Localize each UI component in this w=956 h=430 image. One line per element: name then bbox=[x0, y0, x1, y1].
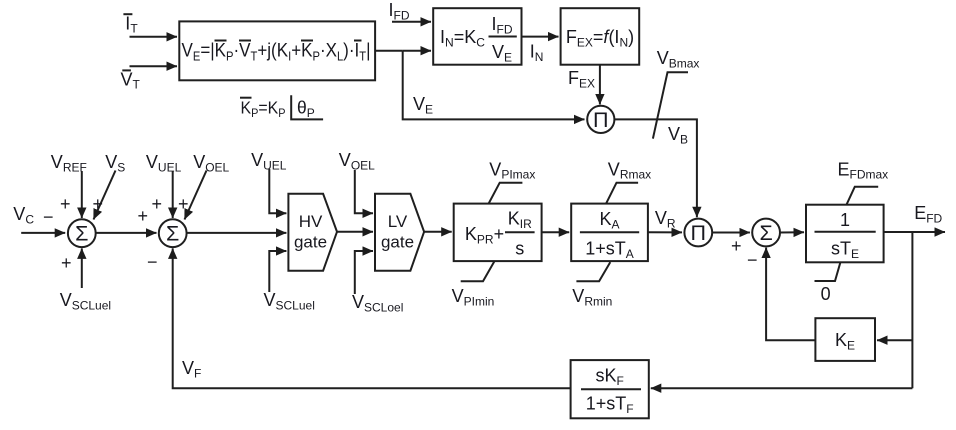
gate HV bbox=[288, 194, 337, 271]
svg-text:KP=KP: KP=KP bbox=[241, 98, 286, 120]
svg-text:−: − bbox=[747, 250, 758, 270]
node VT input label bbox=[121, 69, 141, 91]
svg-text:IFD: IFD bbox=[389, 0, 410, 23]
wire PI block to KA block bbox=[542, 231, 570, 233]
block integrator 1/sTE bbox=[806, 205, 884, 263]
multiplier P1 bbox=[587, 106, 614, 133]
svg-text:s: s bbox=[515, 239, 524, 259]
svg-text:VC: VC bbox=[13, 204, 34, 227]
wire junction down and right to multiplier P1 bbox=[403, 51, 585, 120]
wire KE output up into S3 bbox=[766, 248, 815, 341]
limiter mark VRmax bbox=[606, 160, 651, 204]
gate LV bbox=[375, 194, 424, 271]
svg-text:+: + bbox=[60, 194, 71, 214]
svg-text:EFDmax: EFDmax bbox=[838, 160, 889, 182]
svg-text:−: − bbox=[147, 252, 158, 272]
wire VC into summer S1 bbox=[21, 232, 65, 234]
block IN = KC IFD / VE bbox=[433, 8, 521, 64]
limiter mark VRmin bbox=[572, 262, 612, 308]
svg-text:VF: VF bbox=[182, 358, 201, 381]
wire feedback into sKF block bbox=[651, 387, 913, 389]
summer S3 bbox=[752, 219, 780, 247]
limiter mark VPImin bbox=[452, 261, 495, 308]
wire VSCLoel into LV gate bottom input bbox=[355, 251, 373, 294]
block PI KPR + KIR/s bbox=[454, 204, 542, 262]
wire P1 output right then down to multiplier P2 bbox=[614, 119, 697, 217]
svg-text:IT: IT bbox=[125, 14, 138, 36]
svg-text:EFD: EFD bbox=[914, 203, 942, 226]
overbar V bbox=[239, 40, 251, 42]
svg-text:gate: gate bbox=[381, 233, 414, 252]
svg-text:+: + bbox=[178, 194, 189, 214]
wire P2 to S3 bbox=[712, 232, 750, 234]
limiter mark VPImax bbox=[489, 160, 536, 204]
svg-text:0: 0 bbox=[821, 284, 831, 304]
wire FEX block down to multiplier P1 bbox=[599, 65, 601, 105]
block KE bbox=[815, 318, 875, 361]
svg-text:gate: gate bbox=[294, 233, 327, 252]
overbar K (2nd) bbox=[301, 40, 313, 42]
overbar I bbox=[354, 40, 362, 42]
wire LV gate to PI block bbox=[424, 231, 452, 233]
wire VS diagonal into S1 bbox=[94, 171, 116, 220]
svg-text:+: + bbox=[731, 236, 742, 256]
svg-text:HV: HV bbox=[299, 212, 323, 231]
wire IFD arrow into IN block bbox=[392, 21, 431, 23]
block sKF/(1+sTF) bbox=[571, 360, 649, 418]
wire KA block to multiplier P2 bbox=[648, 231, 682, 233]
block VE equation bbox=[179, 21, 375, 80]
svg-text:Σ: Σ bbox=[166, 222, 179, 246]
svg-text:+: + bbox=[138, 206, 149, 226]
svg-text:IN: IN bbox=[530, 42, 544, 65]
wire VSCLuel up into S1 bbox=[81, 248, 83, 288]
wire VOEL into LV gate top input bbox=[355, 170, 373, 213]
wire junction to IN block lower input bbox=[403, 50, 431, 52]
wire S3 to integrator block bbox=[780, 231, 804, 233]
svg-text:VSCLoel: VSCLoel bbox=[352, 292, 403, 315]
wire VSCLuel into HV gate bottom input bbox=[269, 251, 286, 292]
block KA/(1+sTA) bbox=[571, 204, 648, 262]
svg-text:−: − bbox=[43, 207, 54, 227]
svg-text:Σ: Σ bbox=[75, 222, 88, 246]
svg-text:Σ: Σ bbox=[759, 221, 772, 245]
wire sKF output left and up into S2 bbox=[173, 248, 571, 388]
wire VUEL into HV gate top input bbox=[269, 169, 286, 213]
wire IT arrow into VE block bbox=[130, 36, 178, 38]
svg-text:θP: θP bbox=[297, 98, 315, 120]
svg-text:VRmax: VRmax bbox=[608, 160, 651, 182]
svg-text:+: + bbox=[93, 194, 104, 214]
svg-text:VB: VB bbox=[668, 124, 688, 147]
summer S1 bbox=[68, 219, 96, 247]
svg-text:VR: VR bbox=[655, 208, 676, 231]
wire IN block to FEX block bbox=[522, 36, 559, 38]
svg-text:VSCLuel: VSCLuel bbox=[60, 290, 111, 313]
svg-text:+: + bbox=[61, 253, 72, 273]
svg-text:FEX: FEX bbox=[568, 68, 595, 91]
wire HV gate to LV gate bbox=[337, 231, 373, 233]
limiter mark EFDmax bbox=[838, 160, 889, 205]
summer S2 bbox=[159, 219, 187, 247]
multiplier P2 bbox=[684, 219, 712, 247]
wire VE output to junction bbox=[375, 50, 403, 52]
wire VREF down into S1 bbox=[81, 171, 83, 218]
svg-text:+: + bbox=[152, 194, 163, 214]
svg-text:VOEL: VOEL bbox=[339, 150, 375, 173]
block FEX = f(IN) bbox=[561, 8, 640, 64]
svg-text:VOEL: VOEL bbox=[193, 152, 229, 175]
limiter mark 0 (lower) bbox=[815, 262, 841, 304]
svg-text:VUEL: VUEL bbox=[146, 152, 182, 175]
wire feedback vertical from output bbox=[911, 232, 913, 388]
svg-text:VPImin: VPImin bbox=[452, 286, 495, 309]
wire VOEL diagonal into S2 bbox=[185, 171, 207, 220]
svg-text:Π: Π bbox=[593, 108, 609, 132]
svg-text:VSCLuel: VSCLuel bbox=[264, 290, 315, 313]
svg-text:LV: LV bbox=[388, 212, 408, 231]
svg-text:VT: VT bbox=[121, 69, 141, 91]
svg-text:1: 1 bbox=[840, 210, 850, 230]
svg-text:VBmax: VBmax bbox=[657, 48, 700, 71]
wire VUEL down into S2 bbox=[172, 171, 174, 218]
svg-text:VPImax: VPImax bbox=[489, 160, 535, 182]
wire S2 to HV gate bbox=[187, 232, 287, 234]
wire S1 to S2 bbox=[96, 232, 157, 234]
wire into KE block bbox=[877, 339, 912, 341]
node IT input label bbox=[123, 14, 138, 36]
svg-text:VRmin: VRmin bbox=[572, 286, 612, 309]
svg-text:VE: VE bbox=[413, 94, 433, 117]
label KP = KP angle thetaP bbox=[240, 95, 323, 120]
limiter mark VBmax bbox=[653, 48, 700, 139]
wire integrator output EFD bbox=[884, 231, 945, 233]
wire VT arrow into VE block bbox=[130, 65, 178, 67]
overbar K (1st) bbox=[215, 40, 227, 42]
svg-text:Π: Π bbox=[691, 221, 707, 245]
